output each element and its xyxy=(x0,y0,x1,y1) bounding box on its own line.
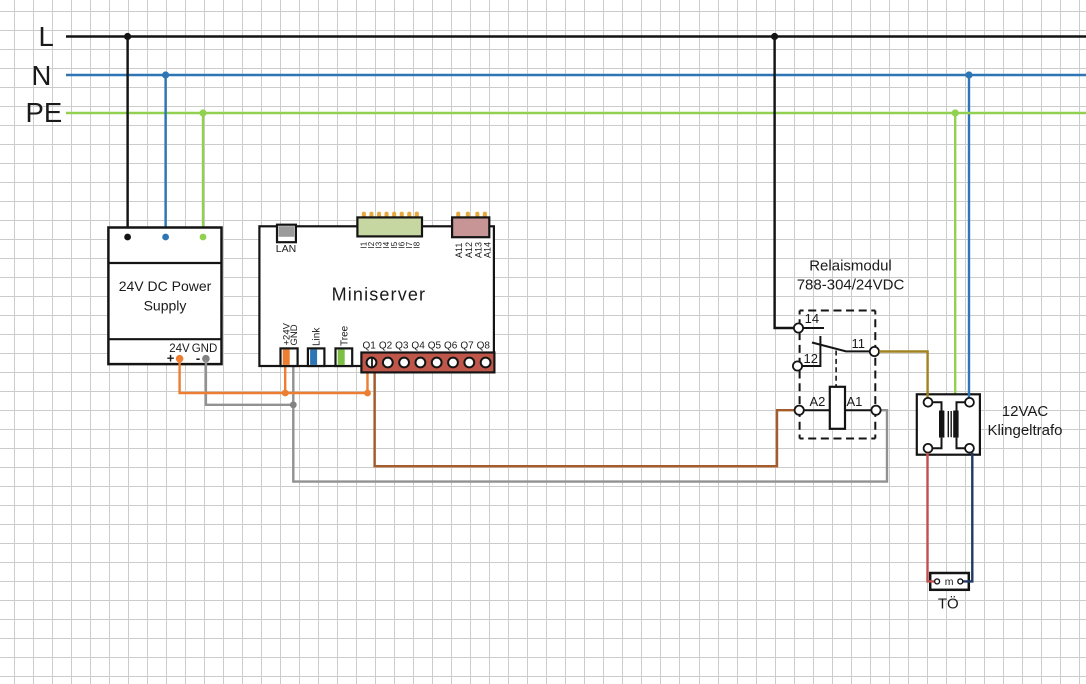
svg-text:A11: A11 xyxy=(454,243,464,258)
wire +24V orange from PSU to miniserver and Q1 xyxy=(180,360,368,393)
relay terminal A1 xyxy=(871,406,880,415)
junction N / transformer xyxy=(965,71,972,78)
wire L to power supply xyxy=(126,37,128,228)
wire bus PE xyxy=(66,112,1086,114)
relay contact 12 lead xyxy=(802,336,821,366)
relay mechanical link dashed xyxy=(835,351,837,387)
pin label +24V xyxy=(282,322,293,345)
svg-text:I8: I8 xyxy=(413,241,422,248)
power supply terminal + xyxy=(167,351,184,366)
pin label I8 xyxy=(413,241,422,248)
junction PE / power supply xyxy=(199,109,206,116)
digital input connector I1-I8 xyxy=(357,217,422,236)
label N xyxy=(32,60,52,91)
wire stub dark yellow into transformer xyxy=(926,393,928,398)
svg-text:788-304/24VDC: 788-304/24VDC xyxy=(797,277,905,294)
miniserver 24V/GND connector xyxy=(281,348,298,366)
transformer terminal bottom-right xyxy=(965,444,974,453)
wire stub navy out of transformer xyxy=(971,453,973,456)
power supply label xyxy=(119,278,212,314)
relay module K1 dashed outline xyxy=(800,311,876,439)
pin label I4 xyxy=(382,241,391,248)
svg-text:Miniserver: Miniserver xyxy=(332,285,427,305)
relay terminal 11 xyxy=(870,347,879,356)
wire GND gray miniserver pin to relay A1 xyxy=(293,367,887,482)
svg-text:Q6: Q6 xyxy=(444,341,458,352)
transformer label xyxy=(987,403,1062,439)
pin label 12 xyxy=(804,351,818,366)
svg-text:N: N xyxy=(32,60,52,91)
svg-text:Q2: Q2 xyxy=(379,341,393,352)
analog connector A11-A14 xyxy=(452,217,489,237)
svg-text:Q4: Q4 xyxy=(411,341,425,352)
svg-text:m: m xyxy=(945,576,954,588)
LAN label xyxy=(276,243,296,255)
svg-text:Tree: Tree xyxy=(339,325,350,346)
transformer core xyxy=(948,411,951,437)
wire GND gray from PSU to junction xyxy=(206,360,293,405)
relay terminal A2 xyxy=(795,406,804,415)
transformer terminal top-left xyxy=(924,398,933,407)
junction GND xyxy=(290,401,297,408)
svg-text:Supply: Supply xyxy=(144,298,187,314)
pin label I1 xyxy=(360,241,369,248)
miniserver Link connector xyxy=(308,348,325,366)
junction L / power supply xyxy=(124,33,131,40)
relay output labels Q1-Q8 xyxy=(363,341,491,352)
wire N to transformer xyxy=(968,75,970,399)
svg-text:Relaismodul: Relaismodul xyxy=(809,258,892,275)
junction L / relay xyxy=(771,33,778,40)
door opener label TOe xyxy=(938,595,959,613)
relay coil lead A1 xyxy=(845,409,872,411)
pin label A12 xyxy=(464,242,474,258)
relay module label xyxy=(797,258,905,294)
label PE xyxy=(26,97,63,128)
relay terminal 14 xyxy=(794,323,803,332)
door opener terminal left xyxy=(935,579,940,584)
wire bus L xyxy=(66,35,1086,37)
wire through Q1 terminal xyxy=(371,357,373,369)
pin label Tree xyxy=(339,325,350,346)
pin label A13 xyxy=(473,242,483,258)
power supply output label GND xyxy=(192,343,218,355)
svg-text:A12: A12 xyxy=(464,242,474,258)
door opener TOe box xyxy=(930,573,969,590)
svg-text:24V DC Power: 24V DC Power xyxy=(119,278,212,294)
pin label A1 xyxy=(847,394,863,409)
power supply U1 box xyxy=(108,228,221,365)
transformer T1 box xyxy=(917,394,980,454)
svg-text:+: + xyxy=(167,351,175,366)
wire PE to transformer xyxy=(954,113,956,394)
svg-text:11: 11 xyxy=(852,336,866,351)
wire relay 11 to transformer dark yellow xyxy=(879,352,927,399)
wire L to relay terminal 14 xyxy=(775,37,794,329)
pin label I3 xyxy=(375,241,384,248)
junction PE / transformer xyxy=(952,109,959,116)
relay coil rectangle xyxy=(830,387,845,429)
pin label Link xyxy=(312,327,323,346)
svg-text:LAN: LAN xyxy=(276,243,296,255)
miniserver label xyxy=(332,285,427,305)
svg-text:Q5: Q5 xyxy=(428,341,442,352)
power supply input terminal N xyxy=(162,234,169,241)
svg-text:TÖ: TÖ xyxy=(938,595,959,613)
power supply terminal - xyxy=(196,351,210,366)
pin label I7 xyxy=(405,241,414,248)
svg-text:Q3: Q3 xyxy=(395,341,409,352)
label L xyxy=(39,21,54,52)
junction +24V at Q1 xyxy=(364,390,371,397)
miniserver Tree connector xyxy=(336,348,353,366)
svg-text:A2: A2 xyxy=(810,394,826,409)
svg-text:A1: A1 xyxy=(847,394,863,409)
wire stub N blue into transformer xyxy=(968,393,970,398)
digital input connector pins xyxy=(362,212,419,225)
wire PE to power supply xyxy=(202,113,204,228)
relay contact 14 lead xyxy=(802,327,824,329)
wire branch +24V to miniserver pin xyxy=(284,367,286,394)
relay switch arm from 11 xyxy=(812,343,871,352)
pin label 11 xyxy=(852,336,866,351)
power supply input terminal L xyxy=(124,234,131,241)
pin label I6 xyxy=(397,241,406,248)
svg-text:Q7: Q7 xyxy=(460,341,474,352)
wire transformer to door opener red xyxy=(928,453,935,582)
svg-text:12: 12 xyxy=(804,351,818,366)
svg-text:Klingeltrafo: Klingeltrafo xyxy=(987,422,1062,439)
transformer secondary winding xyxy=(953,402,965,448)
svg-text:PE: PE xyxy=(26,97,63,128)
power supply input terminal PE xyxy=(200,234,207,241)
pin label I2 xyxy=(367,241,376,248)
LAN port xyxy=(277,225,296,243)
svg-text:Q1: Q1 xyxy=(363,341,377,352)
wire bus N xyxy=(66,74,1086,76)
door opener terminal right xyxy=(958,579,963,584)
pin label I5 xyxy=(390,241,399,248)
pin label A2 xyxy=(810,394,826,409)
wire N to power supply xyxy=(164,75,166,228)
transformer terminal top-right xyxy=(965,398,974,407)
wire transformer to door opener navy xyxy=(962,453,973,581)
svg-text:-: - xyxy=(196,351,200,366)
junction +24V at miniserver xyxy=(282,390,289,397)
transformer primary winding xyxy=(933,402,945,448)
svg-text:12VAC: 12VAC xyxy=(1002,403,1049,420)
analog connector pins xyxy=(456,212,487,225)
svg-text:L: L xyxy=(39,21,54,52)
svg-text:A14: A14 xyxy=(483,242,493,258)
svg-text:14: 14 xyxy=(805,311,819,326)
pin label 14 xyxy=(805,311,819,326)
wire stub red out of transformer xyxy=(926,452,928,455)
power supply output label 24V xyxy=(169,343,190,355)
wire Q1 brown to relay A2 xyxy=(375,373,795,467)
svg-text:Q8: Q8 xyxy=(477,341,491,352)
transformer terminal bottom-left xyxy=(924,444,933,453)
pin label GND xyxy=(289,324,300,345)
relay output connector Q1-Q8 xyxy=(361,353,494,373)
door opener coil label m xyxy=(945,576,954,588)
relay terminal 12 xyxy=(793,361,802,370)
pin label A14 xyxy=(483,242,493,258)
svg-text:Link: Link xyxy=(312,327,323,346)
svg-text:GND: GND xyxy=(289,324,300,345)
relay coil lead A2 xyxy=(804,409,830,411)
junction N / power supply xyxy=(162,71,169,78)
pin label A11 xyxy=(454,243,464,258)
miniserver U2 box xyxy=(259,226,494,366)
